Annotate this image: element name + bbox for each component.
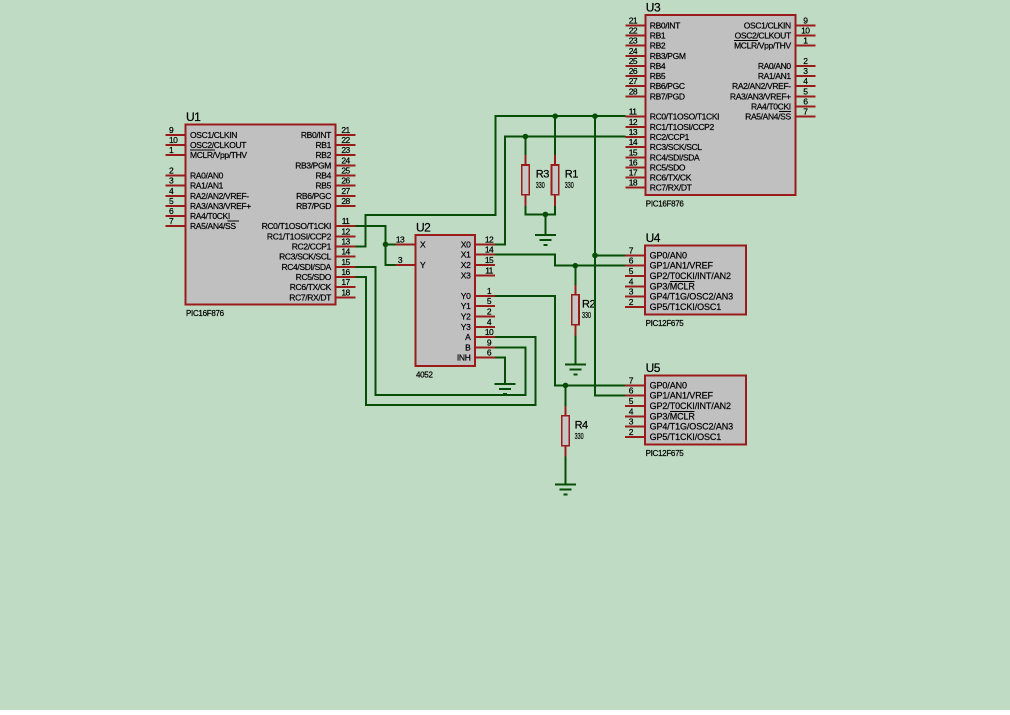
svg-text:R3: R3	[536, 169, 549, 181]
svg-text:OSC1/CLKIN: OSC1/CLKIN	[744, 20, 791, 30]
svg-text:Y1: Y1	[461, 301, 471, 311]
svg-text:PIC16F876: PIC16F876	[646, 200, 685, 209]
svg-text:RC3/SCK/SCL: RC3/SCK/SCL	[650, 142, 703, 152]
svg-text:RC0/T1OSO/T1CKI: RC0/T1OSO/T1CKI	[262, 221, 331, 231]
svg-text:26: 26	[341, 176, 350, 186]
svg-text:17: 17	[629, 168, 638, 178]
svg-text:RC2/CCP1: RC2/CCP1	[650, 132, 690, 142]
svg-text:330: 330	[536, 181, 545, 190]
svg-text:10: 10	[801, 26, 810, 36]
svg-text:10: 10	[169, 135, 178, 145]
svg-text:RB2: RB2	[316, 150, 332, 160]
svg-text:RB3/PGM: RB3/PGM	[295, 160, 331, 170]
svg-text:GP1/AN1/VREF: GP1/AN1/VREF	[650, 391, 714, 401]
svg-text:OSC2/CLKOUT: OSC2/CLKOUT	[735, 31, 791, 41]
svg-text:GP3/MCLR: GP3/MCLR	[650, 411, 696, 421]
svg-text:25: 25	[341, 166, 350, 176]
svg-text:13: 13	[396, 234, 405, 244]
svg-text:27: 27	[629, 76, 638, 86]
svg-text:RA5/AN4/SS: RA5/AN4/SS	[190, 221, 236, 231]
svg-text:PIC12F675: PIC12F675	[646, 319, 685, 328]
svg-text:14: 14	[341, 247, 350, 257]
svg-text:RB7/PGD: RB7/PGD	[650, 91, 685, 101]
svg-text:16: 16	[341, 267, 350, 277]
svg-text:RC6/TX/CK: RC6/TX/CK	[650, 173, 692, 183]
svg-text:Y: Y	[420, 260, 426, 270]
svg-text:4052: 4052	[416, 371, 433, 380]
svg-text:14: 14	[629, 137, 638, 147]
svg-text:RA3/AN3/VREF+: RA3/AN3/VREF+	[190, 201, 251, 211]
svg-text:RB0/INT: RB0/INT	[301, 130, 331, 140]
svg-text:RB0/INT: RB0/INT	[650, 20, 680, 30]
svg-text:INH: INH	[457, 353, 471, 363]
svg-text:RB4: RB4	[650, 61, 666, 71]
svg-text:PIC12F675: PIC12F675	[646, 449, 685, 458]
svg-text:RB5: RB5	[650, 71, 666, 81]
svg-text:23: 23	[629, 36, 638, 46]
svg-text:RA4/T0CKI: RA4/T0CKI	[190, 211, 230, 221]
svg-text:OSC2/CLKOUT: OSC2/CLKOUT	[190, 140, 246, 150]
svg-text:Y3: Y3	[461, 322, 471, 332]
svg-text:RC4/SDI/SDA: RC4/SDI/SDA	[281, 262, 331, 272]
svg-text:15: 15	[485, 255, 494, 265]
svg-text:12: 12	[341, 226, 350, 236]
svg-text:U4: U4	[646, 231, 661, 245]
svg-text:RC5/SDO: RC5/SDO	[650, 162, 686, 172]
svg-text:RA1/AN1: RA1/AN1	[758, 71, 792, 81]
svg-text:12: 12	[485, 234, 494, 244]
svg-text:GP0/AN0: GP0/AN0	[650, 380, 687, 390]
svg-text:X: X	[420, 239, 426, 249]
svg-text:11: 11	[342, 216, 350, 226]
svg-text:RC1/T1OSI/CCP2: RC1/T1OSI/CCP2	[267, 231, 332, 241]
svg-text:RB6/PGC: RB6/PGC	[650, 81, 685, 91]
svg-text:24: 24	[341, 155, 350, 165]
svg-text:22: 22	[629, 26, 638, 36]
svg-text:RB6/PGC: RB6/PGC	[296, 191, 331, 201]
svg-text:GP4/T1G/OSC2/AN3: GP4/T1G/OSC2/AN3	[650, 292, 734, 302]
svg-text:GP5/T1CKI/OSC1: GP5/T1CKI/OSC1	[650, 432, 722, 442]
svg-text:RA2/AN2/VREF-: RA2/AN2/VREF-	[732, 81, 791, 91]
svg-text:X3: X3	[461, 270, 471, 280]
svg-text:RB7/PGD: RB7/PGD	[296, 201, 331, 211]
svg-text:16: 16	[629, 157, 638, 167]
svg-text:RB4: RB4	[316, 171, 332, 181]
svg-text:B: B	[465, 342, 471, 352]
svg-text:RC7/RX/DT: RC7/RX/DT	[650, 183, 692, 193]
svg-text:RC2/CCP1: RC2/CCP1	[292, 242, 332, 252]
svg-text:11: 11	[485, 265, 493, 275]
svg-text:RC0/T1OSO/T1CKI: RC0/T1OSO/T1CKI	[650, 112, 719, 122]
svg-text:A: A	[465, 332, 471, 342]
svg-text:21: 21	[341, 125, 350, 135]
svg-text:MCLR/Vpp/THV: MCLR/Vpp/THV	[190, 150, 247, 160]
svg-text:GP5/T1CKI/OSC1: GP5/T1CKI/OSC1	[650, 302, 722, 312]
svg-text:U3: U3	[646, 1, 661, 15]
svg-text:R2: R2	[582, 298, 595, 310]
svg-text:GP2/T0CKI/INT/AN2: GP2/T0CKI/INT/AN2	[650, 401, 731, 411]
svg-text:RA1/AN1: RA1/AN1	[190, 181, 224, 191]
svg-text:X2: X2	[461, 260, 471, 270]
svg-text:RC6/TX/CK: RC6/TX/CK	[290, 282, 332, 292]
svg-text:GP0/AN0: GP0/AN0	[650, 250, 687, 260]
svg-text:U2: U2	[416, 221, 431, 235]
svg-text:21: 21	[629, 15, 638, 25]
svg-text:GP2/T0CKI/INT/AN2: GP2/T0CKI/INT/AN2	[650, 271, 731, 281]
svg-text:RB5: RB5	[316, 181, 332, 191]
svg-text:RC7/RX/DT: RC7/RX/DT	[289, 292, 331, 302]
svg-text:R4: R4	[575, 419, 588, 431]
svg-text:RA5/AN4/SS: RA5/AN4/SS	[745, 112, 791, 122]
svg-text:17: 17	[341, 277, 350, 287]
svg-text:28: 28	[629, 86, 638, 96]
svg-text:28: 28	[341, 196, 350, 206]
svg-text:U5: U5	[646, 361, 661, 375]
svg-text:RC4/SDI/SDA: RC4/SDI/SDA	[650, 152, 700, 162]
svg-text:RC5/SDO: RC5/SDO	[296, 272, 332, 282]
svg-text:PIC16F876: PIC16F876	[186, 309, 225, 318]
svg-text:RB3/PGM: RB3/PGM	[650, 51, 686, 61]
svg-text:RB1: RB1	[650, 31, 666, 41]
svg-text:GP3/MCLR: GP3/MCLR	[650, 281, 696, 291]
svg-text:RB2: RB2	[650, 41, 666, 51]
svg-text:14: 14	[485, 245, 494, 255]
svg-text:X0: X0	[461, 239, 471, 249]
svg-text:15: 15	[341, 257, 350, 267]
svg-text:10: 10	[485, 327, 494, 337]
svg-text:U1: U1	[186, 110, 201, 124]
svg-text:RA4/T0CKI: RA4/T0CKI	[751, 102, 791, 112]
svg-text:13: 13	[341, 237, 350, 247]
svg-text:X1: X1	[461, 250, 471, 260]
svg-text:18: 18	[341, 287, 350, 297]
svg-text:11: 11	[629, 107, 637, 117]
svg-text:23: 23	[341, 145, 350, 155]
svg-text:RC3/SCK/SCL: RC3/SCK/SCL	[279, 252, 332, 262]
svg-text:15: 15	[629, 147, 638, 157]
svg-text:Y2: Y2	[461, 312, 471, 322]
svg-text:24: 24	[629, 46, 638, 56]
svg-text:330: 330	[575, 432, 584, 441]
svg-text:13: 13	[629, 127, 638, 137]
svg-text:MCLR/Vpp/THV: MCLR/Vpp/THV	[734, 41, 791, 51]
svg-text:RA0/AN0: RA0/AN0	[190, 171, 224, 181]
svg-text:R1: R1	[565, 169, 578, 181]
svg-text:12: 12	[629, 117, 638, 127]
svg-text:GP1/AN1/VREF: GP1/AN1/VREF	[650, 261, 714, 271]
svg-text:330: 330	[582, 311, 591, 320]
svg-text:RA0/AN0: RA0/AN0	[758, 61, 792, 71]
svg-text:GP4/T1G/OSC2/AN3: GP4/T1G/OSC2/AN3	[650, 422, 734, 432]
svg-text:25: 25	[629, 56, 638, 66]
svg-text:RC1/T1OSI/CCP2: RC1/T1OSI/CCP2	[650, 122, 715, 132]
svg-text:Y0: Y0	[461, 291, 471, 301]
svg-text:330: 330	[565, 181, 574, 190]
svg-text:22: 22	[341, 135, 350, 145]
svg-text:OSC1/CLKIN: OSC1/CLKIN	[190, 130, 237, 140]
svg-text:27: 27	[341, 186, 350, 196]
svg-text:RA2/AN2/VREF-: RA2/AN2/VREF-	[190, 191, 249, 201]
svg-text:RB1: RB1	[316, 140, 332, 150]
svg-text:18: 18	[629, 178, 638, 188]
svg-text:26: 26	[629, 66, 638, 76]
svg-text:RA3/AN3/VREF+: RA3/AN3/VREF+	[730, 91, 791, 101]
